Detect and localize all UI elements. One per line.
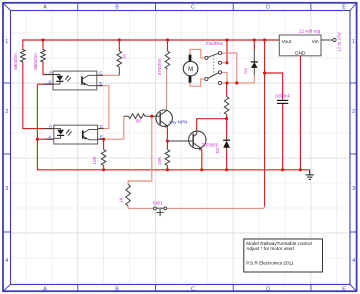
svg-text:680ohm: 680ohm [13,53,18,70]
wire Q1 emitter node [166,126,168,141]
wire switch T3 drop [222,72,227,83]
resistor R2 680ohm [41,50,46,63]
wire TIP3055 emitter to ground rail [201,149,203,170]
wire switch T2 stub [222,62,227,64]
title box [244,239,323,272]
svg-text:TIP3055: TIP3055 [202,142,219,147]
switch FwdRev DPDT [205,51,222,84]
svg-text:1: 1 [5,39,8,45]
svg-text:10K: 10K [92,155,97,164]
ground [306,170,314,180]
svg-text:A: A [43,5,47,11]
resistor R1 680ohm [21,50,26,63]
svg-text:D: D [266,286,270,292]
svg-text:Adjust * for motor used: Adjust * for motor used [246,246,294,251]
motor M1 [183,61,198,76]
svg-text:2: 2 [352,109,355,115]
wire 680ohm R1 to opto2 anode [23,62,54,129]
transistor Q1 Any NPN [152,110,173,126]
wire rail to 1K R3 [118,40,120,51]
wire Q1 collector to 470ohm R4 [166,69,168,111]
svg-text:FwdRev: FwdRev [206,41,224,46]
svg-text:Any NPN: Any NPN [169,119,188,124]
optocoupler U2 [54,125,98,144]
svg-text:A: A [49,124,52,129]
svg-text:D2: D2 [215,147,220,153]
wire rail to diode D1 [253,40,255,50]
svg-text:680ohm: 680ohm [33,53,38,70]
svg-text:K: K [49,134,52,139]
svg-text:5K: 5K [136,119,143,124]
svg-text:3: 3 [5,186,8,192]
wire +12V top rail [23,40,280,50]
wire diode D2 to ground rail [226,119,228,141]
wire opto1 collector to 1K R3 [97,74,119,76]
wire K1 to opto1 [37,83,53,85]
svg-text:10K: 10K [157,156,162,165]
wire K2 to opto2 [37,138,53,140]
resistor R5 5K [124,115,129,117]
svg-text:1: 1 [352,39,355,45]
svg-text:12 volt reg: 12 volt reg [299,29,321,34]
svg-text:1000nF: 1000nF [275,94,291,99]
wire motor top to switch pole 1 [190,49,205,58]
diode D2 [223,139,230,141]
svg-text:B: B [115,286,119,292]
svg-text:4: 4 [5,258,8,264]
svg-text:2: 2 [5,109,8,115]
wire +12 right vertical to SW1 [264,40,266,206]
wire rail to switch contact T2 [226,40,228,63]
wire opto1 emitter to opto2 collector [97,86,109,129]
svg-text:*: * [220,111,222,116]
svg-text:C: C [191,5,195,11]
svg-text:D1: D1 [243,67,248,73]
voltage regulator U3 [279,35,321,56]
transistor Q2 TIP3055 [167,131,206,148]
svg-text:C: C [100,124,103,129]
resistor R4 470ohm [165,51,170,69]
svg-text:C: C [191,286,195,292]
svg-text:A: A [49,70,52,75]
wire opto2 emitter to 5K R5 [98,116,124,139]
resistor R9 adjust-star [224,97,229,115]
opto pin stubs [44,75,104,140]
svg-text:470ohm: 470ohm [157,59,162,76]
svg-text:A: A [43,286,47,292]
wire 680ohm R2 to opto1 anode [42,40,44,50]
wire capacitor C1 top branch [265,73,283,100]
svg-text:4: 4 [352,258,355,264]
wire SW1 to +12 vertical [167,206,265,208]
wire *R to TIP3055 collector node [226,83,228,97]
svg-text:B: B [115,5,119,11]
svg-text:SW1: SW1 [153,200,163,205]
svg-text:D: D [266,5,270,11]
diode D1 [251,50,258,75]
optocoupler U1 [53,71,97,90]
svg-text:E: E [99,81,102,86]
svg-text:1K: 1K [122,53,127,60]
resistor R3 1K [117,51,122,67]
svg-text:GND: GND [295,51,306,57]
switch SW1 [154,207,167,210]
wire TIP3055 collector [197,119,227,132]
wire switch T1 loop [222,53,237,83]
svg-text:3: 3 [352,186,355,192]
svg-text:Vout: Vout [282,39,292,45]
capacitor C1 1000nF [277,100,288,103]
wire 10K R7 to ground rail [166,141,168,150]
resistor R6 10K [101,150,106,166]
svg-text:12 to 15V: 12 to 15V [337,31,342,52]
svg-text:Vin: Vin [312,39,319,45]
wire switch T4 to diode D1 [222,75,255,84]
svg-text:E: E [342,5,346,11]
svg-text:P.S.R Electronics 2011: P.S.R Electronics 2011 [246,260,294,265]
wire ground bottom rail [37,84,309,170]
svg-text:C: C [99,70,102,75]
svg-text:E: E [342,286,346,292]
wire Q1 base to 1K R8 chain [128,116,152,184]
wire capacitor C1 to ground rail [282,104,284,170]
wire regulator GND to ground rail [299,56,301,170]
wire motor bottom to switch pole 2 [190,79,205,86]
svg-text:M: M [188,67,193,73]
svg-text:1K: 1K [118,196,123,203]
resistor R8 1K [126,185,131,207]
wire rail to 470ohm R4 [167,40,169,51]
input terminal [321,39,333,41]
resistor R7 10K [165,150,170,166]
svg-text:K: K [49,79,52,84]
wire opto2 emitter node to 10K R6 [103,139,105,149]
wire 1K R8 to SW1 [127,206,129,208]
